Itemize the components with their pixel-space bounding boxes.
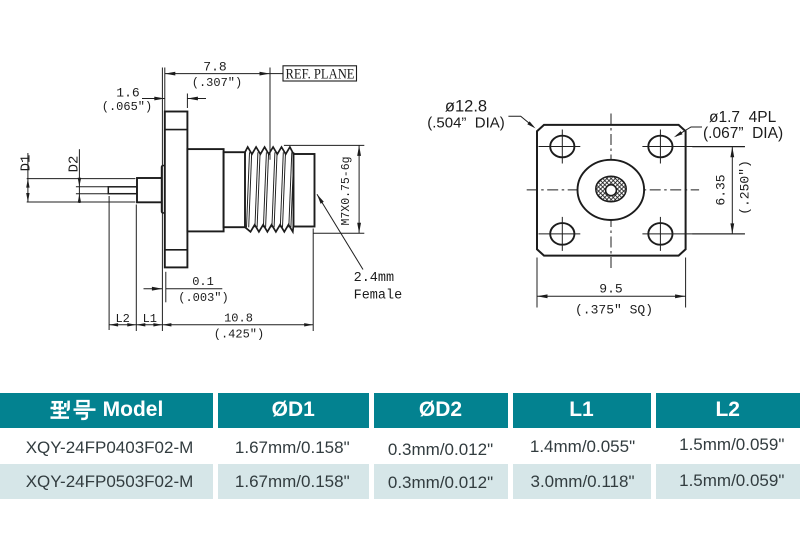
leader 2.4mm Female bbox=[317, 194, 363, 269]
flange (side view) bbox=[165, 112, 188, 268]
thread M7 outer profile top bbox=[245, 147, 294, 154]
svg-text:(.003″): (.003″) bbox=[178, 291, 228, 305]
table data row 1 bbox=[0, 428, 213, 465]
CJK char 号 bbox=[73, 401, 95, 419]
D2 pin (small center pin, side view) bbox=[108, 187, 137, 194]
flange square (front view) bbox=[537, 125, 686, 256]
dimension 0.1 (gasket) bbox=[165, 272, 167, 303]
svg-text:6.35: 6.35 bbox=[714, 174, 729, 205]
svg-text:1.6: 1.6 bbox=[116, 86, 139, 101]
mounting hole TR bbox=[648, 136, 672, 158]
svg-text:ø12.8: ø12.8 bbox=[445, 98, 487, 116]
svg-text:D1: D1 bbox=[19, 155, 35, 172]
svg-text:ø1.7 4PL: ø1.7 4PL bbox=[709, 109, 777, 126]
svg-text:Female: Female bbox=[354, 288, 403, 303]
svg-text:(.065″): (.065″) bbox=[102, 100, 152, 114]
body neck (thread relief) bbox=[224, 152, 245, 227]
thread M7 outer profile bottom bbox=[245, 225, 294, 232]
center pin hole bbox=[606, 185, 617, 196]
M7 dimension line bbox=[358, 145, 360, 233]
REF. PLANE box bbox=[270, 73, 283, 75]
D1 pin (larger pin section, side view) bbox=[137, 178, 163, 202]
svg-text:2.4mm: 2.4mm bbox=[354, 271, 395, 286]
svg-text:(.250″): (.250″) bbox=[738, 160, 753, 215]
mounting hole BR bbox=[648, 223, 672, 245]
svg-text:D2: D2 bbox=[67, 156, 83, 173]
M7 thread dimension extension lines bbox=[284, 144, 364, 146]
svg-text:(.375″ SQ): (.375″ SQ) bbox=[575, 303, 653, 318]
svg-text:9.5: 9.5 bbox=[599, 281, 622, 296]
center boss circle bbox=[578, 160, 645, 220]
engineering drawing canvas bbox=[0, 0, 800, 390]
extension line: REF plane vertical bbox=[269, 68, 271, 160]
svg-text:(.425″): (.425″) bbox=[214, 328, 264, 342]
table header row bbox=[0, 393, 213, 428]
dimension 1.6 (flange thickness) bbox=[142, 98, 165, 100]
svg-text:L2: L2 bbox=[115, 312, 129, 326]
dimension 7.8 line bbox=[165, 73, 270, 75]
svg-text:M7X0.75-6g: M7X0.75-6g bbox=[340, 156, 353, 225]
dimension 9.5 bbox=[536, 258, 538, 308]
extension line: gasket left, long vertical bbox=[161, 68, 163, 332]
thread flank lines bbox=[247, 152, 294, 227]
front coupling cylinder bbox=[294, 154, 315, 227]
svg-text:0.1: 0.1 bbox=[192, 275, 214, 289]
flange chamfer line top bbox=[165, 129, 188, 131]
svg-text:10.8: 10.8 bbox=[224, 311, 253, 325]
dimension 6.35 bbox=[692, 146, 745, 148]
table data row 2 bbox=[0, 464, 213, 499]
extension lines for L2 L1 10.8 bbox=[108, 196, 110, 330]
svg-text:7.8: 7.8 bbox=[203, 60, 226, 75]
D1 dimension bbox=[27, 178, 136, 180]
D2 dimension bbox=[76, 186, 108, 188]
leader ø12.8 bbox=[508, 116, 533, 127]
svg-text:L1: L1 bbox=[143, 312, 157, 326]
CJK char 型 bbox=[50, 401, 69, 418]
center lines (dash-dot) bbox=[610, 114, 612, 269]
leader ø1.7 bbox=[676, 127, 702, 136]
mounting hole BL bbox=[550, 223, 574, 245]
svg-text:(.067” DIA): (.067” DIA) bbox=[703, 125, 783, 142]
body main cylinder bbox=[187, 149, 223, 231]
extension line: flange right above bbox=[186, 94, 188, 109]
gasket bead (0.1 thick) bbox=[162, 166, 165, 214]
svg-text:REF. PLANE: REF. PLANE bbox=[286, 67, 355, 83]
svg-text:(.504” DIA): (.504” DIA) bbox=[427, 114, 505, 131]
dimension line L2/L1/10.8 bbox=[109, 324, 313, 326]
svg-text:(.307″): (.307″) bbox=[192, 76, 242, 90]
mounting hole TL bbox=[550, 136, 574, 158]
flange chamfer line bottom bbox=[165, 249, 188, 251]
extension line: flange left above bbox=[164, 68, 166, 112]
